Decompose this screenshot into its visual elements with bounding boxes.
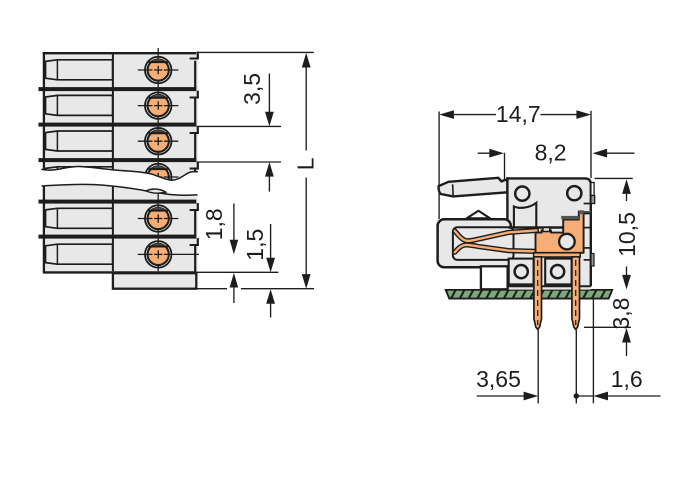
left view clamp circle 6 bbox=[145, 241, 172, 268]
extension line from block bottom bbox=[195, 288, 227, 290]
svg-text:14,7: 14,7 bbox=[496, 101, 541, 127]
left view clamp circle 4 bbox=[145, 164, 172, 191]
solder pin 1 bbox=[534, 257, 542, 330]
solder pin 2 bbox=[572, 257, 580, 330]
svg-text:3,5: 3,5 bbox=[239, 73, 265, 105]
release lever bbox=[439, 178, 508, 197]
pcb hatched bar bbox=[446, 290, 613, 299]
break line lower wavy edge bbox=[42, 184, 198, 195]
contact lower strip bbox=[534, 253, 581, 257]
break line upper wavy edge bbox=[41, 166, 198, 180]
latch triangle bbox=[467, 211, 490, 219]
left view clamp circle 5 bbox=[145, 205, 172, 232]
contact spring lower prong bbox=[455, 245, 537, 252]
extension line from 2nd separator bbox=[197, 125, 281, 127]
left view upper body group bbox=[39, 48, 199, 197]
clamp housing block bbox=[438, 219, 511, 267]
left view segment 6 right edge notch bbox=[197, 238, 199, 245]
left view separator band 1 bbox=[39, 87, 197, 91]
extension line left of lever bbox=[438, 112, 440, 220]
finger slot in body bbox=[514, 203, 536, 227]
contact body orange block bbox=[536, 211, 584, 252]
svg-text:3,8: 3,8 bbox=[608, 298, 634, 330]
right step column lines bbox=[584, 203, 591, 205]
body bottom boundary above contact bbox=[509, 226, 564, 228]
left view segment 1 cavity bbox=[45, 60, 112, 80]
torn circle sliver in break bbox=[146, 189, 166, 193]
left view segment 4 right edge notch bbox=[197, 162, 199, 169]
top mounting hole left bbox=[515, 187, 529, 201]
left view divider line (lower) bbox=[112, 184, 114, 271]
side view right edge sliver lower bbox=[591, 254, 594, 267]
left view segment 3 cavity bbox=[45, 131, 112, 151]
body bottom edge bbox=[507, 285, 591, 287]
left view segment 6 cavity bbox=[45, 244, 112, 264]
left view separator band 3 bbox=[39, 158, 197, 162]
front cavity opening bbox=[481, 266, 508, 289]
pin 1 axis extension bbox=[537, 330, 539, 404]
extension line from body top bbox=[197, 51, 314, 53]
solder pad block right bbox=[545, 259, 571, 285]
left view segment 5 right edge notch bbox=[197, 203, 199, 210]
extension line pin tips bbox=[584, 326, 631, 328]
side view body block bbox=[507, 178, 590, 289]
side view body outline bbox=[506, 178, 591, 286]
left view segment 2 cavity bbox=[45, 95, 112, 115]
dimension L line and arrows bbox=[302, 53, 311, 68]
dimension 10,5 bbox=[595, 177, 633, 179]
solder pad block left bbox=[509, 259, 534, 285]
svg-text:10,5: 10,5 bbox=[614, 212, 640, 257]
left view separator band 2 bbox=[39, 123, 197, 127]
pin 2 axis extension bbox=[575, 330, 577, 404]
right edge extension line bbox=[592, 300, 594, 404]
extension line right edge bbox=[590, 111, 592, 178]
dimension 1,5 line and arrows bbox=[270, 224, 272, 258]
solder pad hole left bbox=[515, 265, 528, 278]
svg-text:L: L bbox=[293, 157, 319, 170]
left view clamp circle 2 bbox=[145, 92, 172, 119]
left view separator band 4 bbox=[39, 200, 197, 204]
dimension 3,65 bbox=[477, 395, 524, 397]
clamp cavity bbox=[453, 227, 514, 260]
svg-text:1,5: 1,5 bbox=[242, 229, 268, 261]
contact spring upper prong bbox=[455, 230, 537, 240]
left view bottom extension block bbox=[113, 273, 196, 289]
left view segment 1 right edge notch bbox=[197, 52, 199, 59]
left view segment 2 right edge notch bbox=[197, 91, 199, 98]
svg-text:1,8: 1,8 bbox=[201, 208, 227, 240]
svg-text:3,65: 3,65 bbox=[476, 366, 521, 392]
left view clamp circle 3 bbox=[145, 128, 172, 155]
left view divider line bbox=[112, 53, 114, 185]
solder pad hole right bbox=[551, 265, 564, 278]
left view segment 4 cavity bbox=[45, 167, 112, 187]
left view lower body group bbox=[39, 182, 242, 272]
step shading bands bbox=[561, 216, 579, 219]
dimension 8,2 bbox=[478, 152, 490, 154]
left view clamp circle 1 bbox=[145, 57, 172, 84]
dimension 1,6 bbox=[574, 393, 579, 398]
left view body bottom edge bbox=[43, 271, 196, 273]
left view separator band 5 bbox=[39, 235, 197, 239]
side view right edge sliver upper bbox=[591, 183, 594, 196]
left view segment 3 right edge notch bbox=[197, 126, 199, 133]
extension line 8,2 housing face bbox=[504, 153, 506, 181]
side view left wall bbox=[506, 177, 508, 219]
dimension 14,7 bbox=[439, 110, 454, 119]
contact body hole bbox=[559, 234, 575, 250]
svg-text:1,6: 1,6 bbox=[611, 366, 643, 392]
left view segment 5 cavity bbox=[45, 208, 112, 228]
svg-text:8,2: 8,2 bbox=[535, 140, 567, 166]
extension line from body bottom bbox=[193, 271, 278, 273]
clamp unit axis line (bottom) bbox=[157, 184, 159, 271]
clamp unit axis line (top) bbox=[157, 48, 159, 185]
top mounting hole right bbox=[567, 186, 581, 200]
dimension 3,8 bbox=[622, 328, 631, 343]
dimension 1,8 line and arrows bbox=[233, 204, 235, 241]
dimension 3,5 line and arrows bbox=[268, 74, 270, 113]
extension line from 3rd separator bbox=[197, 161, 281, 163]
